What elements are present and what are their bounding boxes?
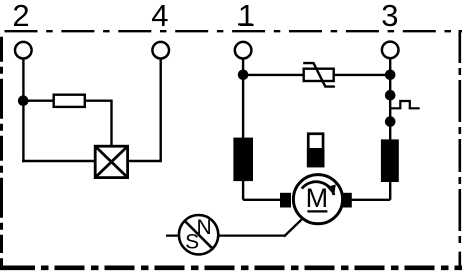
svg-text:3: 3 bbox=[381, 0, 398, 33]
svg-text:S: S bbox=[185, 230, 199, 253]
svg-text:2: 2 bbox=[12, 0, 29, 33]
svg-text:M: M bbox=[306, 183, 329, 213]
svg-text:4: 4 bbox=[151, 0, 168, 33]
svg-text:1: 1 bbox=[238, 0, 255, 33]
